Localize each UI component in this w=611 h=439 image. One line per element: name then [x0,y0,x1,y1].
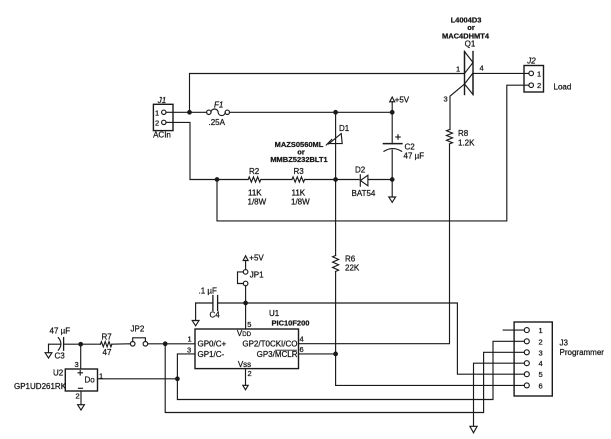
svg-text:1/8W: 1/8W [248,198,267,207]
svg-text:L4004D3: L4004D3 [451,16,482,25]
zener diode D1 [326,134,342,145]
svg-text:Q1: Q1 [465,40,476,49]
svg-text:1: 1 [537,69,541,78]
svg-text:1: 1 [539,326,543,335]
svg-text:6: 6 [539,381,543,390]
svg-text:11K: 11K [248,189,262,198]
ground symbol below C2 [389,180,396,203]
svg-text:1.2K: 1.2K [458,139,475,148]
wire R8 to U1 pin4 [299,144,450,344]
wire top rail from J1 pin1 riser to triac MT [190,74,465,113]
svg-text:Load: Load [554,83,572,92]
capacitor C4 [196,296,246,311]
svg-text:2: 2 [539,337,543,346]
svg-text:4: 4 [480,64,484,73]
svg-text:2: 2 [248,369,252,378]
wire VDD node to U1 pin5 [245,303,247,329]
svg-text:R8: R8 [458,129,469,138]
svg-text:BAT54: BAT54 [352,189,376,198]
resistor R2 [248,177,261,182]
svg-text:.1 µF: .1 µF [199,287,218,296]
svg-text:47 µF: 47 µF [404,152,425,161]
svg-text:3: 3 [75,360,79,369]
node junction MCLR [334,352,338,356]
svg-text:22K: 22K [345,264,360,273]
svg-text:C3: C3 [55,352,66,361]
svg-text:11K: 11K [292,189,306,198]
U2 polarity minus [79,387,83,389]
capacitor C2 [383,112,402,179]
svg-text:J1: J1 [157,96,166,105]
svg-text:Do: Do [85,375,96,384]
Q1 part text L4004D3 or MAC4DHMT4 [442,16,490,41]
svg-text:4: 4 [300,335,304,344]
node junction VDD [244,301,248,305]
Q1 gate wire to R8 [450,84,465,130]
svg-text:R3: R3 [294,167,305,176]
svg-text:Vss: Vss [238,360,251,369]
resistor R8 [447,130,453,144]
node junction at top riser [188,111,192,115]
power +5V symbol at C2 [390,97,395,112]
node junction GP0 [163,342,167,346]
svg-text:GP3/MCLR: GP3/MCLR [257,350,298,359]
svg-text:R7: R7 [102,333,113,342]
wire triac MT2 to J2 pin1 [473,72,529,74]
C2 polarity plus [396,135,400,139]
node junction U2 Do [176,377,180,381]
wire J3 pin4 to ground [474,363,525,426]
resistor R7 [100,342,112,347]
svg-text:JP1: JP1 [250,271,264,280]
svg-text:U1: U1 [269,309,280,318]
svg-text:.25A: .25A [209,118,226,127]
svg-text:2: 2 [537,81,541,90]
svg-text:D1: D1 [339,124,350,133]
connector J1 [153,104,173,130]
wire U1 pin1 to JP2 node [165,343,195,345]
svg-text:3: 3 [539,348,543,357]
wire J1 pin2 riser and rail to C2 bottom [173,122,392,179]
U2 polarity plus [78,371,82,375]
svg-text:5: 5 [539,370,543,379]
svg-text:2: 2 [155,118,159,127]
wire U2 Do to GP1 net [98,378,178,380]
diode D2 [360,175,369,186]
ground symbol at C3 [45,344,52,358]
svg-text:+5V: +5V [395,96,410,105]
D1 part text MAZS0560ML or MMBZ5232BLT1 [270,140,327,164]
wire rail2 from node x217 to J2 pin2 [217,85,529,221]
svg-text:5: 5 [247,320,251,329]
svg-text:3: 3 [444,95,448,104]
svg-text:47: 47 [103,348,112,357]
wire GP0 node to J3 pin3 [165,344,524,413]
wire VDD node to J3 pin5 [246,303,525,374]
jumper JP2 [130,338,147,346]
U1 pin2 Vss ground symbol [243,369,248,390]
node junction rail1 C2 bottom [390,178,394,182]
node junction rail1 D1 bottom [334,178,338,182]
svg-text:+5V: +5V [249,254,264,263]
wire node to R7 [81,343,101,345]
node junction C2 top [390,111,394,115]
connector J2 [524,66,544,93]
wire U1 pin3 branch [177,341,524,399]
optocoupler U2 [65,369,97,391]
wire J3 pin1 stub [503,329,524,331]
svg-text:PIC10F200: PIC10F200 [272,319,310,328]
svg-text:47 µF: 47 µF [50,327,71,336]
svg-text:GP1/C-: GP1/C- [198,350,225,359]
svg-text:3: 3 [187,345,191,354]
node junction C3/R7/U2 [79,342,83,346]
svg-text:2: 2 [76,392,80,401]
wire J1 pin1 to fuse [173,111,207,113]
wire R7 to JP2 [112,343,131,345]
jumper JP1 [238,270,248,286]
svg-text:U2: U2 [53,369,64,378]
node junction D1 top [334,111,338,115]
svg-text:R2: R2 [249,167,260,176]
svg-text:Programmer: Programmer [560,348,605,357]
svg-text:GP2/T0CKI/CO: GP2/T0CKI/CO [242,340,297,349]
triac Q1 [465,52,474,95]
svg-text:J2: J2 [526,57,536,66]
resistor R3 [292,177,305,182]
svg-text:C4: C4 [210,311,221,320]
resistor R6 [332,256,340,271]
svg-text:D2: D2 [355,166,366,175]
svg-text:4: 4 [539,359,543,368]
svg-text:C2: C2 [405,143,416,152]
svg-text:J3: J3 [560,339,569,348]
svg-text:6: 6 [300,345,304,354]
svg-text:MMBZ5232BLT1: MMBZ5232BLT1 [270,155,327,164]
svg-text:F1: F1 [214,101,223,110]
fuse F1 [207,109,230,116]
svg-text:1: 1 [155,108,159,117]
ground symbol at C4 [192,303,199,326]
IC U1 PIC10F200 [195,329,299,369]
svg-text:R6: R6 [345,255,356,264]
wire JP2 to node [148,343,166,345]
svg-text:1/8W: 1/8W [291,198,310,207]
svg-text:GP1UD261RK: GP1UD261RK [14,382,67,391]
node junction rail1 x217 [215,178,219,182]
svg-text:MAC4DHMT4: MAC4DHMT4 [442,32,490,41]
svg-text:VDD: VDD [237,329,252,338]
wire MCLR node to J3 pin6 [336,354,525,386]
svg-text:1: 1 [188,335,192,344]
svg-text:ACIn: ACIn [153,131,171,140]
svg-text:1: 1 [456,65,460,74]
wire U1 pin6 to MCLR node [299,353,336,355]
svg-text:JP2: JP2 [131,325,145,334]
svg-text:GP0/C+: GP0/C+ [198,340,227,349]
ground symbol at U2 pin2 [78,391,85,410]
wire JP1 to VDD node [245,286,247,303]
wire D1 vertical branch [335,112,337,354]
ground symbol at J3 pin4 [470,426,477,433]
wire U2 pin3 [80,344,82,369]
connector J3 [514,322,552,396]
power +5V symbol at JP1 [243,256,248,270]
wire fuse to +5V node [230,111,393,113]
capacitor C3 [49,338,81,351]
